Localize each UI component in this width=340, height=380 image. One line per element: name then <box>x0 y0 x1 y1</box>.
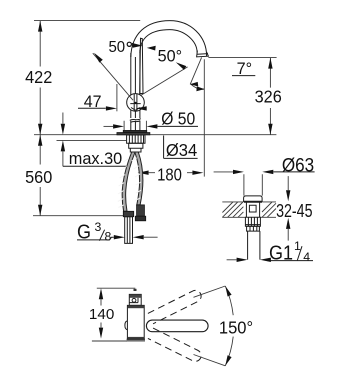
hose end reference line <box>33 215 123 217</box>
sink deck top line <box>222 201 276 203</box>
ball joint internals <box>130 94 140 111</box>
right hose end connector <box>137 205 145 216</box>
degree symbol left <box>127 42 131 46</box>
dimension 140 arrow down <box>99 328 103 339</box>
G1 1/4 right arrowhead <box>260 258 271 262</box>
spout outlet <box>197 51 209 57</box>
dimension max.30 arrow down <box>61 124 65 135</box>
dimension 326 arrow up <box>268 58 272 69</box>
svg-text:560: 560 <box>25 167 52 187</box>
dimension dia50 left arrowhead <box>113 124 124 128</box>
dimension 180 <box>149 172 193 174</box>
lever handle <box>140 38 143 93</box>
svg-text:4: 4 <box>303 250 310 264</box>
dimension max.30 upper leg <box>62 113 64 124</box>
G3/8 left arrowhead <box>114 235 125 239</box>
shank lower sections <box>129 143 143 152</box>
dimension 326 arrow down <box>268 124 272 135</box>
svg-text:326: 326 <box>255 87 282 107</box>
drain nut lower tier <box>247 226 260 231</box>
swivel arc bottom arrowhead <box>225 355 231 366</box>
hose braid texture <box>118 158 141 208</box>
dimension 560 arrow down <box>38 205 42 216</box>
svg-text:3: 3 <box>95 220 102 234</box>
faucet column pipe <box>131 50 140 132</box>
50 deg left outer arrowhead <box>94 53 103 63</box>
50 deg left tilt line <box>93 53 133 100</box>
dimension 32-45 upper leg <box>287 176 289 190</box>
extension line 326 top <box>208 57 276 59</box>
dimension 47 right-pointing arrowhead <box>106 106 117 110</box>
spout inner curve <box>140 30 197 53</box>
spout outer curve <box>131 21 207 57</box>
svg-text:1: 1 <box>294 239 301 253</box>
dimension 47 left-pointing arrowhead <box>136 106 147 110</box>
drain dia63 right arrowhead <box>262 170 273 174</box>
svg-text:8: 8 <box>105 230 112 244</box>
dimension 32-45 lower leg <box>287 229 289 241</box>
svg-text:Ø34: Ø34 <box>166 140 198 161</box>
7 deg tilt line <box>190 57 201 84</box>
drain cap <box>244 196 263 202</box>
50 deg left lever arrowhead <box>132 43 143 48</box>
main view: extension line at spout top <box>34 20 140 22</box>
label G1 1/4 underline <box>267 260 313 262</box>
drain dia63 left arrowhead <box>233 170 244 174</box>
7 deg arc left arrowhead <box>190 82 198 87</box>
dimension 32-45 arrow down <box>286 190 290 201</box>
sink deck hatching left <box>222 202 243 217</box>
G3/8 right tail <box>144 236 158 238</box>
G3/8 right arrowhead <box>133 235 144 239</box>
bottom view: top extension line <box>97 287 136 289</box>
svg-text:G: G <box>77 222 91 244</box>
svg-text:47: 47 <box>84 93 102 112</box>
swivel radius line lower <box>194 355 226 366</box>
dimension dia50 extension lines <box>124 121 146 131</box>
svg-text:50: 50 <box>108 39 125 56</box>
bottom view solid spout tube <box>146 320 208 332</box>
pipe break squiggle <box>130 119 141 123</box>
50 deg right line arrowhead <box>176 62 187 70</box>
dimension 32-45 arrow up <box>286 218 290 229</box>
label max.30 underline <box>63 165 126 167</box>
dimension 560 arrow up <box>38 135 42 146</box>
dimension dia50 right arrowhead <box>146 124 157 128</box>
base flange <box>123 130 147 132</box>
deck bottom line <box>57 139 127 141</box>
svg-text:150°: 150° <box>219 318 253 337</box>
left hose threaded nipple <box>125 217 133 244</box>
dimension 180 left arrowhead <box>138 171 149 175</box>
swivel arc 150 <box>225 286 233 366</box>
ball joint <box>127 94 145 112</box>
dimension max.30 arrow up <box>61 140 65 151</box>
swivel radius line upper <box>194 286 226 297</box>
dimension dia50 label line <box>157 125 198 127</box>
right hose end collar <box>135 216 145 221</box>
label G3/8 underline <box>77 237 114 240</box>
sink deck bottom line <box>222 216 276 218</box>
dimension 422 arrow down <box>38 124 42 135</box>
bottom view lever speck <box>134 289 137 291</box>
mounting shank with thread <box>127 135 145 143</box>
7 deg arc right arrowhead <box>196 86 204 91</box>
drain dia63 dimension left tail <box>214 171 233 173</box>
dimension 326 line <box>269 58 271 135</box>
outlet vertical extension line <box>203 59 205 176</box>
bottom view bottom extension line <box>92 340 127 342</box>
svg-text:422: 422 <box>25 68 52 88</box>
label 47 underline <box>78 107 106 109</box>
G1 1/4 left arrowhead <box>237 258 248 262</box>
sink deck hatching right <box>262 202 276 217</box>
dimension 180 right arrowhead <box>192 171 203 175</box>
bottom view left bump <box>125 321 128 330</box>
swivel arc top arrowhead <box>225 286 231 297</box>
50 deg right lever arrowhead <box>147 46 156 51</box>
dimension 140 line <box>100 299 102 328</box>
bottom view lever knob <box>129 294 141 305</box>
svg-text:140: 140 <box>89 306 114 323</box>
dimension max.30 lower leg <box>62 151 64 166</box>
svg-text:180: 180 <box>157 166 182 185</box>
svg-text:max.30: max.30 <box>69 149 122 168</box>
label dia34 leader <box>164 136 198 159</box>
dimension 422 line <box>39 21 41 135</box>
dimension 422 arrow up <box>38 21 42 32</box>
drain dia63 label line <box>273 171 314 173</box>
svg-text:32-45: 32-45 <box>276 201 312 221</box>
bottom view dashed spout upper <box>148 288 203 323</box>
svg-text:50°: 50° <box>158 47 182 65</box>
drain locking nut <box>245 217 260 226</box>
drain body in hole <box>246 202 259 217</box>
bottom view dashed spout lower <box>148 328 203 363</box>
left supply hose <box>122 152 135 211</box>
dimension dia50 left tail <box>104 125 114 127</box>
dimension 47 extension line <box>116 84 118 111</box>
drain tailpipe <box>248 231 260 260</box>
svg-text:Ø 50: Ø 50 <box>161 109 195 129</box>
dimension 560 line <box>39 135 41 216</box>
deck top line <box>34 134 276 136</box>
label 7 deg underline <box>232 75 255 77</box>
dimension 140 arrow up <box>99 288 103 299</box>
left hose end collar <box>123 211 133 216</box>
50 deg right tilt line <box>140 67 187 96</box>
7 deg arc <box>191 84 205 89</box>
svg-text:G1: G1 <box>269 243 293 265</box>
G1 1/4 dimension left tail <box>227 259 237 261</box>
drain dia63 extension lines <box>244 174 262 195</box>
right supply hose <box>135 152 143 205</box>
bottom view body <box>127 305 144 339</box>
